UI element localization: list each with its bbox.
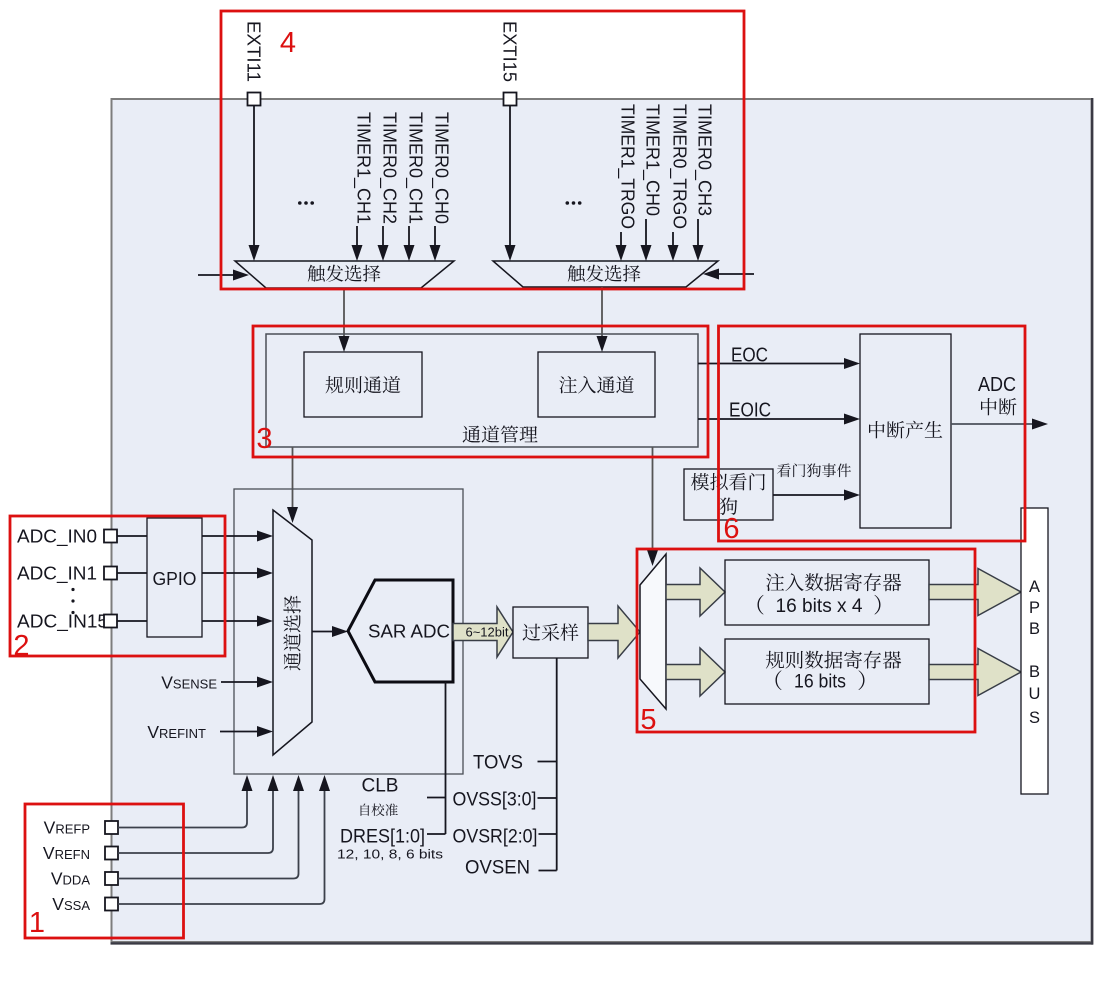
svg-text:GPIO: GPIO xyxy=(153,569,197,589)
svg-text:P: P xyxy=(1029,599,1040,617)
svg-text:5: 5 xyxy=(640,704,656,736)
svg-text:U: U xyxy=(1029,685,1041,703)
svg-text:TIMER1_CH1: TIMER1_CH1 xyxy=(353,112,374,224)
svg-text:3: 3 xyxy=(256,423,272,455)
svg-text:TIMER0_CH3: TIMER0_CH3 xyxy=(694,104,715,216)
svg-text:TIMER0_TRGO: TIMER0_TRGO xyxy=(669,104,690,229)
svg-text:TIMER0_CH1: TIMER0_CH1 xyxy=(405,112,426,224)
svg-text:ADC_IN15: ADC_IN15 xyxy=(17,612,108,633)
svg-text:TOVS: TOVS xyxy=(473,753,523,774)
svg-text:VSSA: VSSA xyxy=(52,894,90,914)
svg-text:OVSEN: OVSEN xyxy=(465,858,530,879)
svg-text:DRES[1:0]: DRES[1:0] xyxy=(340,827,425,848)
svg-text:16 bits x 4: 16 bits x 4 xyxy=(776,596,863,617)
svg-text:EOC: EOC xyxy=(731,345,768,367)
svg-text:OVSS[3:0]: OVSS[3:0] xyxy=(453,790,537,811)
svg-text:TIMER0_CH2: TIMER0_CH2 xyxy=(379,112,400,224)
svg-text:B: B xyxy=(1029,620,1040,638)
svg-text:ADC: ADC xyxy=(978,374,1016,396)
svg-text:1: 1 xyxy=(29,907,45,939)
svg-text:6~12bit: 6~12bit xyxy=(465,625,508,640)
svg-text:6: 6 xyxy=(723,513,739,545)
svg-text:16 bits: 16 bits xyxy=(794,672,846,693)
svg-text:TIMER0_CH0: TIMER0_CH0 xyxy=(431,112,452,224)
svg-text:ADC_IN1: ADC_IN1 xyxy=(17,564,97,585)
svg-text:CLB: CLB xyxy=(362,776,399,797)
svg-text:TIMER1_TRGO: TIMER1_TRGO xyxy=(617,104,638,229)
svg-text:4: 4 xyxy=(280,27,296,59)
svg-text:EXTI11: EXTI11 xyxy=(244,21,264,82)
svg-text:12, 10, 8, 6 bits: 12, 10, 8, 6 bits xyxy=(337,847,444,862)
svg-text:ADC_IN0: ADC_IN0 xyxy=(17,527,97,548)
svg-text:TIMER1_CH0: TIMER1_CH0 xyxy=(642,104,663,216)
svg-text:VREFP: VREFP xyxy=(44,818,90,838)
svg-text:EXTI15: EXTI15 xyxy=(500,21,520,82)
svg-text:2: 2 xyxy=(13,630,29,662)
svg-text:VREFN: VREFN xyxy=(43,843,90,863)
svg-text:SAR ADC: SAR ADC xyxy=(368,622,450,642)
svg-text:VDDA: VDDA xyxy=(51,869,90,889)
svg-text:S: S xyxy=(1029,709,1040,727)
svg-text:OVSR[2:0]: OVSR[2:0] xyxy=(453,827,538,848)
svg-text:A: A xyxy=(1029,578,1040,596)
svg-text:B: B xyxy=(1029,663,1040,681)
svg-text:EOIC: EOIC xyxy=(729,400,771,422)
